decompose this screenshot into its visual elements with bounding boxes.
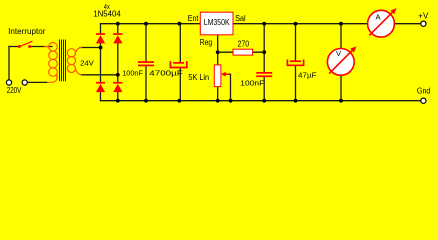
svg-text:+V: +V	[418, 11, 429, 20]
svg-text:100nF: 100nF	[240, 79, 264, 88]
svg-text:1N5404: 1N5404	[93, 9, 121, 18]
svg-text:LM350K: LM350K	[204, 17, 230, 27]
svg-text:270: 270	[238, 39, 250, 48]
svg-text:Interruptor: Interruptor	[8, 27, 46, 36]
svg-text:47µF: 47µF	[298, 71, 317, 80]
svg-text:Reg: Reg	[200, 38, 212, 47]
svg-text:220V: 220V	[7, 86, 22, 95]
svg-text:Gnd: Gnd	[417, 86, 431, 95]
svg-text:100nF: 100nF	[122, 69, 143, 78]
svg-text:Sal: Sal	[235, 14, 246, 23]
svg-text:5K Lin: 5K Lin	[188, 73, 209, 82]
svg-text:4700µF: 4700µF	[149, 69, 183, 78]
svg-text:24V: 24V	[80, 59, 94, 68]
svg-text:Ent: Ent	[188, 14, 199, 23]
